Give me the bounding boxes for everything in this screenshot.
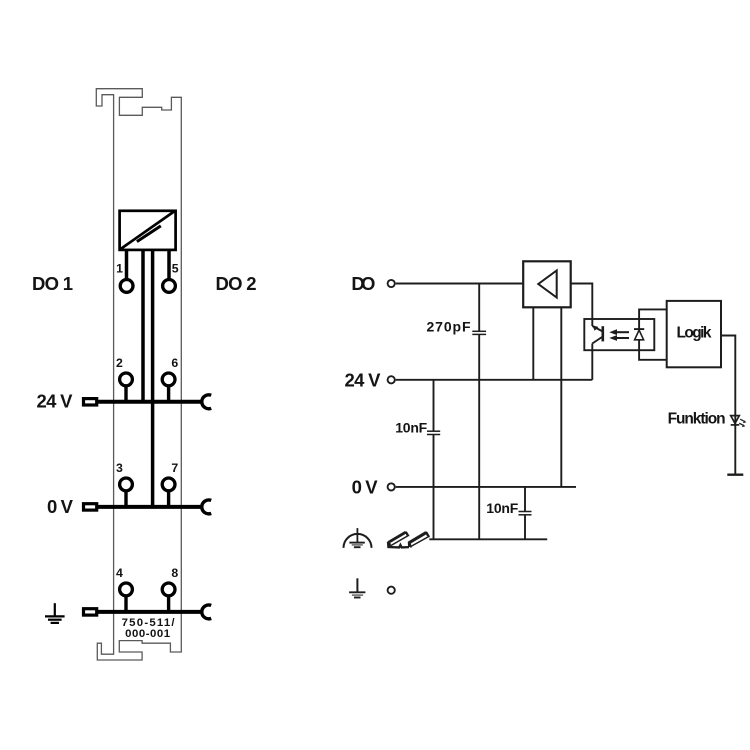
amplifier U1 box	[523, 261, 571, 307]
light arrow upper	[609, 329, 629, 335]
terminal 4	[120, 583, 133, 596]
capacitor C1 270pF line DO to rail	[478, 284, 480, 540]
svg-text:DO 2: DO 2	[216, 273, 257, 294]
capacitor C3 10nF line 0V to rail	[524, 487, 526, 539]
svg-text:24 V: 24 V	[37, 391, 74, 412]
terminal 8	[162, 583, 175, 596]
capacitor C2 10nF line 24V to rail	[433, 380, 435, 540]
DO wire	[396, 283, 524, 285]
terminal 7	[162, 478, 175, 491]
wire Logik to function LED	[721, 336, 735, 475]
0V cage clamp connector	[84, 504, 97, 510]
svg-text:1: 1	[116, 262, 123, 276]
coupling frame box to Logik	[639, 309, 668, 359]
earth clamp contact arc	[202, 605, 211, 619]
svg-text:24 V: 24 V	[345, 369, 382, 390]
module outline (750-511 housing)	[96, 89, 181, 660]
0V clamp contact arc	[202, 500, 211, 514]
terminal 6	[162, 373, 175, 386]
wire U1 lower left leg to 24V	[532, 307, 534, 380]
Logik box U3	[667, 301, 721, 367]
chassis ground symbol	[344, 528, 372, 548]
24V clamp contact arc	[202, 395, 211, 409]
svg-text:Funktion: Funktion	[668, 411, 726, 428]
capacitor C2 plates	[427, 431, 440, 434]
svg-text:6: 6	[171, 356, 178, 370]
emitter wire to 24V	[591, 344, 593, 380]
phototransistor of U2	[592, 325, 603, 343]
svg-text:0 V: 0 V	[47, 496, 74, 517]
terminal 3	[120, 478, 133, 491]
wire K1 to 24V bus	[141, 250, 145, 401]
ground symbol left	[45, 603, 65, 623]
wire K1 to terminal 1	[125, 250, 129, 279]
wire U1 lower right leg to 0V	[560, 307, 562, 487]
earth bus wire	[97, 610, 203, 614]
24V terminal circle	[388, 376, 395, 383]
svg-text:DO: DO	[351, 273, 375, 294]
capacitor C1 plates	[472, 331, 486, 334]
stem terminal 4	[124, 597, 127, 612]
svg-text:Logik: Logik	[677, 325, 712, 342]
0V wire	[396, 486, 576, 488]
svg-text:10nF: 10nF	[486, 500, 518, 516]
stem terminal 8	[167, 597, 170, 612]
DO terminal circle	[388, 280, 395, 287]
svg-text:8: 8	[171, 566, 178, 580]
terminal 2	[120, 373, 133, 386]
stem terminal 2	[124, 387, 127, 402]
DIN rail icon	[388, 531, 431, 548]
24V wire	[396, 379, 593, 381]
wire K1 to 0V bus	[151, 250, 155, 507]
electronics block K1 (box with diagonal)	[120, 211, 176, 250]
function LED D1	[731, 416, 740, 425]
0V bus wire	[97, 505, 203, 509]
LED diode of U2	[634, 329, 644, 340]
svg-text:4: 4	[116, 566, 123, 580]
24V bus wire	[97, 400, 203, 404]
terminal 5	[163, 280, 176, 293]
capacitor C3 plates	[519, 512, 532, 515]
svg-text:270pF: 270pF	[427, 319, 471, 335]
svg-text:10nF: 10nF	[395, 420, 427, 436]
svg-text:000-001: 000-001	[125, 628, 171, 640]
svg-text:0 V: 0 V	[352, 476, 379, 497]
earth terminal circle	[388, 587, 395, 594]
optocoupler U2 box	[584, 319, 654, 350]
stem terminal 6	[167, 387, 170, 402]
24V cage clamp connector	[84, 399, 97, 405]
stem terminal 3	[124, 492, 127, 507]
svg-text:5: 5	[172, 262, 179, 276]
wire U1 output to optocoupler	[571, 284, 593, 327]
svg-text:2: 2	[116, 356, 123, 370]
svg-text:3: 3	[116, 461, 123, 475]
terminal 1	[120, 280, 133, 293]
wire end bar	[727, 474, 743, 476]
LED light arrows	[739, 419, 746, 427]
rail bus wire	[429, 538, 547, 540]
wire K1 to terminal 5	[167, 250, 171, 279]
earth cage clamp connector	[84, 609, 97, 615]
earth symbol bottom	[349, 578, 365, 597]
stem terminal 7	[167, 492, 170, 507]
svg-text:7: 7	[171, 461, 178, 475]
light arrow lower	[609, 335, 629, 341]
0V terminal circle	[388, 483, 395, 490]
svg-text:DO 1: DO 1	[32, 273, 73, 294]
